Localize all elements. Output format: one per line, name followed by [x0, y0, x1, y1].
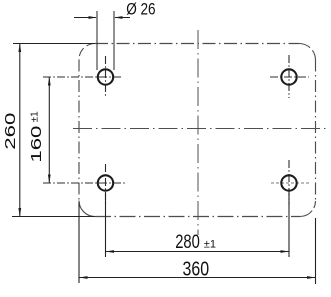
- hole TR centerline horizontal: [270, 76, 309, 78]
- 160 dimension arrow top: [48, 77, 51, 86]
- plate outline left edge: [78, 60, 80, 201]
- hole TR centerline vertical: [288, 55, 290, 98]
- Ø26 extension line left: [96, 11, 98, 70]
- 360 dimension arrow right: [307, 276, 316, 279]
- svg-text:Ø 26: Ø 26: [126, 0, 155, 18]
- 280 extension line right: [288, 193, 290, 257]
- 280 dimension arrow left: [106, 250, 115, 253]
- 280 dimension line: [106, 251, 289, 253]
- Ø26 dimension line right part: [115, 17, 130, 19]
- 360 extension line left: [78, 202, 80, 283]
- centerline vertical middle: [197, 30, 199, 235]
- hole BR circle: [281, 175, 296, 190]
- plate corner arc bottom-left: [79, 201, 95, 217]
- 260 dimension arrow top: [18, 44, 21, 53]
- Ø26 dimension line left part: [74, 17, 96, 19]
- hole BL centerline vertical: [105, 164, 107, 205]
- plate corner arc bottom-right: [300, 201, 316, 217]
- 260 extension line top: [13, 43, 95, 45]
- hole BL circle: [98, 175, 113, 190]
- plate outline top edge: [95, 43, 299, 45]
- Ø26 extension line right: [113, 11, 115, 70]
- 280 dimension arrow right: [281, 250, 290, 253]
- 280 extension line left: [105, 193, 107, 257]
- 160 dimension line: [48, 78, 50, 183]
- 260 dimension line: [19, 44, 21, 216]
- 360 dimension line: [80, 277, 316, 279]
- hole TR circle: [281, 69, 296, 84]
- centerline horizontal middle: [73, 128, 327, 130]
- plate outline right edge: [315, 60, 317, 201]
- plate corner arc top-left: [79, 44, 95, 60]
- hole TL centerline horizontal: [43, 76, 123, 78]
- hole TL circle: [98, 69, 113, 84]
- hole TL centerline vertical: [105, 56, 107, 98]
- svg-text:360: 360: [183, 258, 210, 280]
- Ø26 dimension arrow right (points left): [114, 16, 123, 19]
- 260 extension line bottom: [12, 216, 95, 218]
- plate outline bottom edge: [95, 216, 300, 218]
- hole BR centerline vertical: [288, 160, 290, 205]
- 260 dimension arrow bottom: [18, 208, 21, 217]
- 360 dimension arrow left: [79, 276, 88, 279]
- hole BR centerline horizontal: [271, 182, 310, 184]
- hole BL centerline horizontal: [43, 182, 125, 184]
- 160 dimension arrow bottom: [48, 175, 51, 184]
- Ø26 dimension arrow left (points right): [89, 16, 98, 19]
- 360 extension line right: [315, 218, 317, 284]
- plate corner arc top-right: [299, 44, 316, 61]
- svg-text:260: 260: [3, 113, 19, 150]
